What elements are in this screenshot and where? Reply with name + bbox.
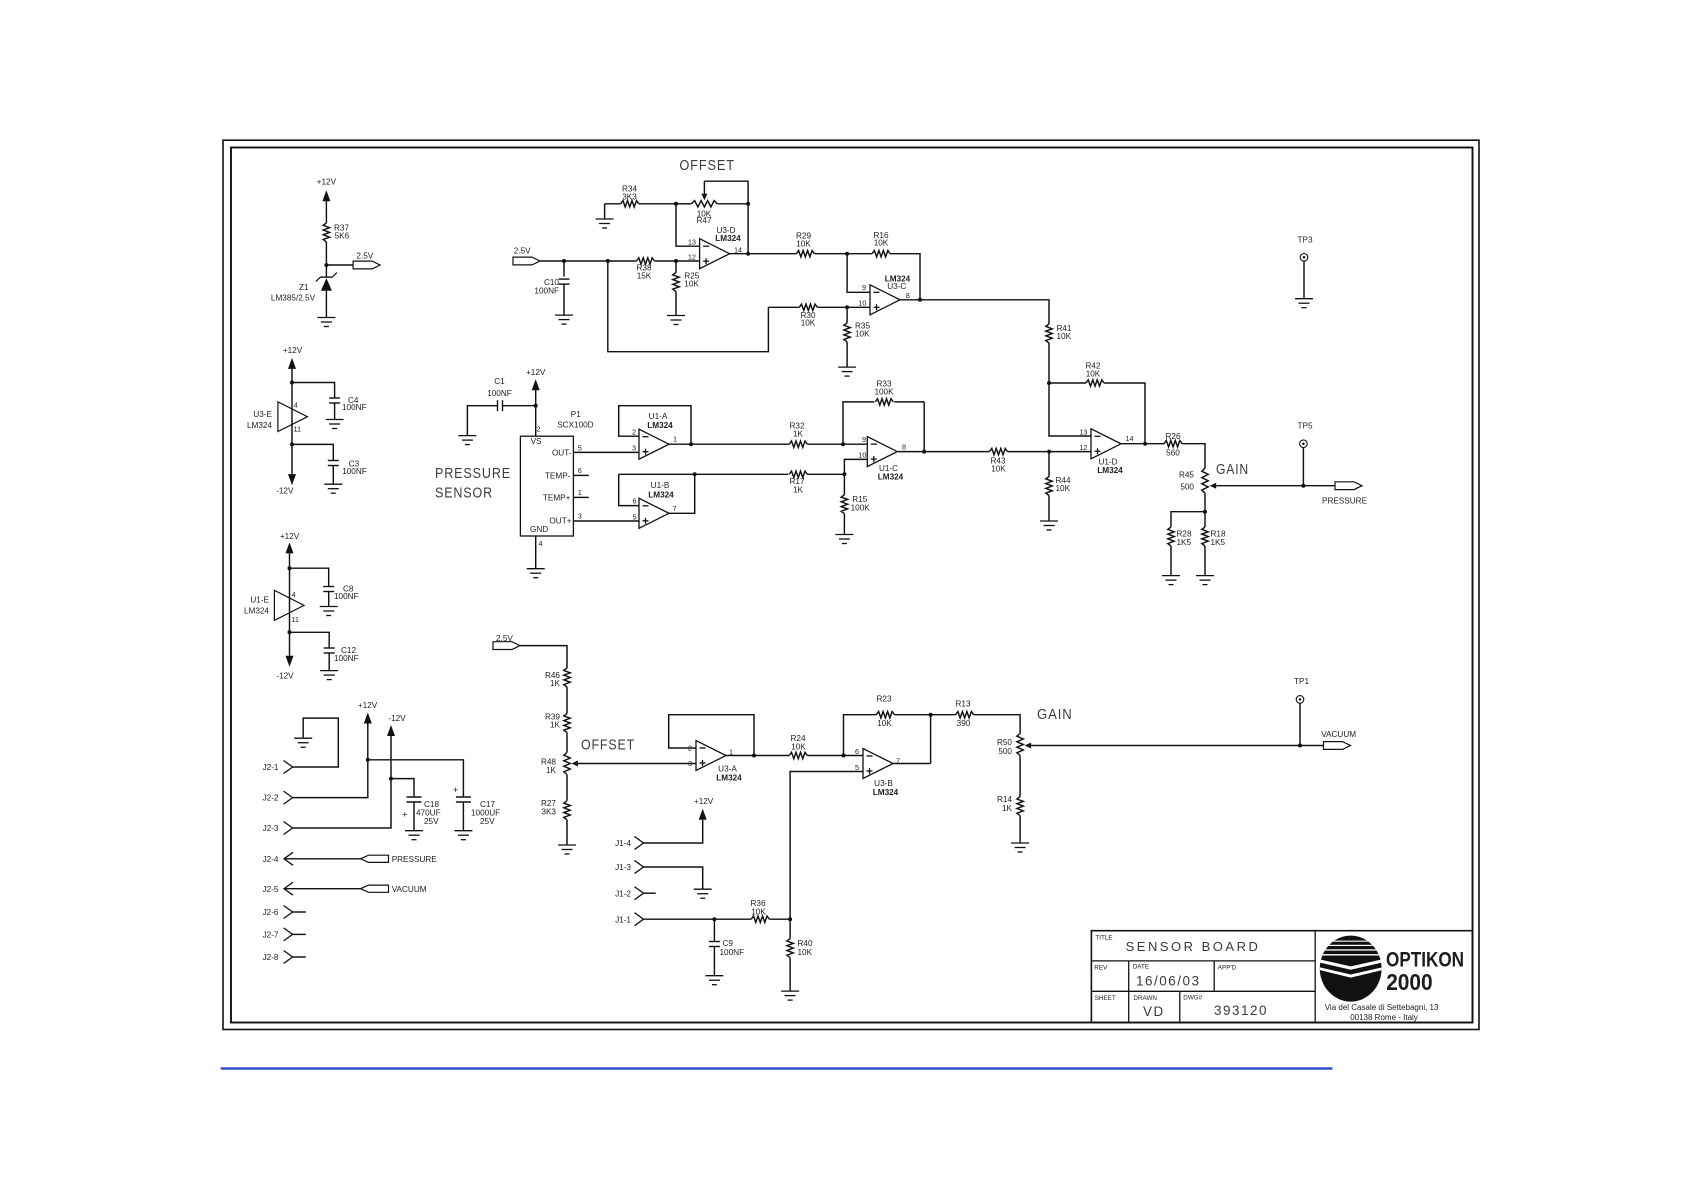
svg-text:J2-8: J2-8 [263, 953, 279, 962]
svg-text:REV: REV [1094, 965, 1108, 972]
svg-text:U3-C: U3-C [887, 282, 906, 291]
svg-text:LM324: LM324 [647, 421, 673, 430]
resistor R29 [796, 251, 814, 257]
svg-text:10: 10 [858, 451, 866, 460]
wire R45 bottom to divider [1204, 493, 1206, 512]
svg-text:U3-A: U3-A [718, 765, 737, 774]
svg-text:R26: R26 [1165, 432, 1180, 441]
wire R32 to node [807, 443, 843, 445]
svg-text:J2-2: J2-2 [263, 794, 279, 803]
svg-text:LM324: LM324 [716, 774, 742, 783]
capacitor C4 [292, 383, 335, 399]
svg-text:1: 1 [578, 488, 582, 497]
wire J2-6 stub [293, 911, 306, 913]
svg-text:11: 11 [294, 425, 302, 434]
wire R26 to R45 [1182, 444, 1205, 469]
svg-text:SCX100D: SCX100D [557, 420, 593, 429]
svg-text:100NF: 100NF [487, 389, 512, 398]
resistor R16 feedback [847, 253, 872, 255]
wire R29 to node [814, 253, 847, 255]
resistor R43 [990, 448, 1008, 454]
svg-text:TP3: TP3 [1298, 236, 1313, 245]
ground below C12 [320, 670, 338, 672]
svg-text:500: 500 [998, 747, 1012, 756]
svg-text:6: 6 [578, 466, 582, 475]
svg-text:J1-3: J1-3 [615, 863, 631, 872]
ground below R14 [1011, 842, 1029, 844]
border frame outer [223, 140, 1479, 1029]
resistor R18 [1204, 512, 1206, 527]
wire R50 to R14 [1019, 756, 1021, 797]
svg-text:LM324: LM324 [1097, 466, 1123, 475]
svg-text:25V: 25V [424, 817, 439, 826]
potentiometer R50 [1017, 734, 1023, 756]
node R23/R13/output [929, 713, 933, 717]
ground at J2-1 [294, 737, 312, 739]
wire node to U3-C pin10 [847, 306, 870, 308]
wire R16 to U3-C output [890, 254, 920, 300]
node U3-E pin11 [290, 442, 294, 446]
svg-text:+12V: +12V [280, 532, 300, 541]
svg-text:-12V: -12V [276, 486, 294, 495]
power -12V arrow (U1-E) [289, 632, 291, 655]
svg-text:OFFSET: OFFSET [679, 157, 735, 174]
node R29/R16/pin9 [845, 252, 849, 256]
svg-text:J2-4: J2-4 [263, 855, 279, 864]
svg-text:5: 5 [855, 763, 859, 772]
svg-text:R45: R45 [1179, 471, 1194, 480]
svg-text:393120: 393120 [1214, 1003, 1268, 1018]
capacitor C12 [290, 632, 330, 648]
svg-text:11: 11 [291, 615, 299, 624]
wire 2.5V loop to R30 [608, 261, 769, 352]
wire P1 TEMP+ stub [573, 496, 588, 498]
svg-text:6: 6 [855, 747, 859, 756]
wire R48 wiper to U3-A pin3 [578, 763, 696, 765]
wire R37 to node 2.5V [325, 242, 327, 265]
resistor R36 [751, 916, 769, 922]
svg-text:R50: R50 [997, 738, 1012, 747]
resistor R38 [637, 258, 655, 264]
ground below C17 [454, 830, 472, 832]
svg-text:VACUUM: VACUUM [1321, 730, 1356, 739]
wire P1 OUT- to U1-A pin3 [573, 451, 639, 453]
svg-text:TITLE: TITLE [1095, 935, 1112, 942]
svg-text:+12V: +12V [694, 797, 714, 806]
wire node to U3-D pin13 [676, 204, 700, 246]
svg-text:5: 5 [632, 513, 636, 522]
resistor R24 [789, 752, 807, 758]
svg-text:1K: 1K [1002, 804, 1013, 813]
svg-text:10K: 10K [796, 239, 811, 248]
ground below R27 [558, 844, 576, 846]
blue footer line [221, 1067, 1333, 1069]
power -12V arrow (U3-E) [291, 444, 293, 474]
resistor R37 [323, 223, 329, 242]
svg-text:DWG#: DWG# [1183, 995, 1202, 1002]
svg-text:100NF: 100NF [342, 403, 367, 412]
svg-text:390: 390 [957, 719, 971, 728]
wire J1-1 to R36 [644, 918, 752, 920]
svg-text:10K: 10K [798, 948, 813, 957]
wire through U1-E pins [289, 568, 291, 632]
svg-text:14: 14 [1126, 434, 1134, 443]
svg-text:PRESSURE: PRESSURE [1322, 496, 1368, 505]
svg-text:4: 4 [292, 590, 296, 599]
wire R17 to node [807, 473, 844, 475]
wire node to U1-C pin10 [844, 459, 867, 474]
wire P1 TEMP- stub [573, 474, 588, 476]
capacitor C17 [456, 796, 471, 798]
svg-text:8: 8 [906, 291, 910, 300]
svg-text:U1-E: U1-E [250, 596, 269, 605]
svg-text:10: 10 [858, 299, 866, 308]
wire node to 2.5V connector [326, 264, 353, 266]
svg-text:P1: P1 [571, 410, 581, 419]
op-amp U1-A [639, 429, 669, 459]
ground below R28 [1162, 575, 1180, 577]
svg-text:100NF: 100NF [334, 592, 359, 601]
wire node to C17 [368, 760, 464, 797]
ground below P1 [527, 568, 545, 570]
svg-text:10K: 10K [874, 239, 889, 248]
resistor R27 [564, 801, 570, 820]
svg-text:13: 13 [688, 238, 696, 247]
wire U3-A feedback loop [669, 715, 754, 756]
node TP1 on vacuum net [1298, 744, 1302, 748]
svg-text:1: 1 [673, 435, 677, 444]
capacitor C8 [290, 568, 329, 586]
ground below R25 [667, 315, 685, 317]
wire R17 row left [619, 473, 789, 475]
svg-text:Via del Casale di Settebagni,: Via del Casale di Settebagni, 13 [1325, 1003, 1439, 1012]
wire J1-4 to +12V [644, 820, 703, 843]
svg-text:VS: VS [531, 437, 542, 446]
wire through U3-E pins [291, 383, 293, 445]
svg-text:2.5V: 2.5V [356, 251, 373, 260]
wire 2.5V rail to U3-D pin12 [540, 260, 637, 262]
svg-text:VD: VD [1143, 1004, 1165, 1019]
svg-text:100NF: 100NF [334, 654, 359, 663]
resistor R15 [843, 474, 845, 494]
svg-text:+12V: +12V [358, 701, 378, 710]
resistor R41 [1046, 324, 1052, 343]
wire node to U1-D pin13 [1049, 383, 1091, 436]
resistor R42 [1049, 382, 1086, 384]
svg-text:10K: 10K [1086, 370, 1101, 379]
wire R41 to node [1048, 343, 1050, 383]
svg-text:10K: 10K [791, 743, 806, 752]
op-amp U1-E power pins [274, 590, 304, 620]
svg-text:500: 500 [1180, 483, 1194, 492]
node R36/R40/pin5 [788, 917, 792, 921]
node R38/R25 [674, 259, 678, 263]
wire P1 OUT+ to U1-B pin5 [573, 520, 639, 522]
title block outline [1091, 931, 1472, 1023]
svg-text:VACUUM: VACUUM [392, 885, 427, 894]
node C1/P1 VS [534, 404, 538, 408]
svg-text:10K: 10K [801, 319, 816, 328]
svg-text:10K: 10K [855, 330, 870, 339]
resistor R23 feedback [844, 715, 877, 756]
svg-text:LM324: LM324 [873, 788, 899, 797]
node R18/R28 divider [1203, 510, 1207, 514]
wire J2-7 stub [293, 933, 306, 935]
op-amp U3-E power pins [278, 402, 308, 432]
connector PRESSURE output [1335, 482, 1362, 490]
svg-text:+: + [453, 785, 459, 796]
capacitor C3 [292, 444, 333, 460]
wire R50 wiper to VACUUM [1031, 745, 1323, 747]
svg-text:OUT-: OUT- [552, 449, 572, 458]
svg-text:100NF: 100NF [534, 287, 559, 296]
capacitor C10 [563, 261, 565, 277]
ground below C10 [555, 314, 573, 316]
resistor R33 feedback [843, 402, 874, 444]
svg-text:5K6: 5K6 [335, 232, 350, 241]
wire J2-1 to ground [293, 718, 339, 767]
ground below J1-3 [694, 888, 712, 890]
border frame inner [231, 148, 1473, 1023]
svg-text:16/06/03: 16/06/03 [1136, 974, 1201, 989]
wire R23 node to U3-B output [930, 715, 932, 764]
wire P1 GND pin4 [535, 536, 537, 569]
ground below R15 [835, 534, 853, 536]
potentiometer R45 [1202, 468, 1208, 493]
node C17 tap [366, 758, 370, 762]
svg-text:LM324: LM324 [878, 473, 904, 482]
node TP5 on pressure net [1301, 484, 1305, 488]
svg-text:1K: 1K [793, 485, 804, 494]
logo OPTIKON globe [1319, 935, 1383, 1002]
svg-text:DRAWN: DRAWN [1133, 995, 1157, 1002]
node R24/R23/pin6 [842, 754, 846, 758]
ground below R18 [1196, 575, 1214, 577]
svg-text:J2-1: J2-1 [263, 763, 279, 772]
svg-text:C1: C1 [494, 377, 505, 386]
svg-text:TP5: TP5 [1298, 422, 1313, 431]
resistor R34 [605, 203, 621, 205]
wire R46 to R39 [566, 687, 568, 714]
resistor R46 [564, 668, 570, 687]
svg-text:2.5V: 2.5V [514, 247, 531, 256]
node C18 tap [389, 777, 393, 781]
resistor R40 [789, 919, 791, 938]
svg-text:100K: 100K [851, 504, 871, 513]
svg-text:6: 6 [632, 497, 636, 506]
connector VACUUM output [1324, 742, 1351, 750]
op-amp U3-A [696, 741, 726, 771]
svg-text:U1-B: U1-B [651, 481, 670, 490]
wire U3-B output [893, 763, 931, 765]
wire node to U3-C pin9 [847, 254, 870, 293]
wire U3-C output to R41 [900, 300, 1049, 324]
zener diode Z1 LM385/2.5V [325, 265, 327, 277]
node C9 tap [712, 917, 716, 921]
svg-text:DATE: DATE [1133, 964, 1149, 971]
svg-text:1K: 1K [546, 766, 557, 775]
svg-text:Z1: Z1 [299, 283, 309, 292]
wire node to U1-C pin9 [843, 443, 867, 445]
node R17/R15/pin10 [842, 472, 846, 476]
svg-text:-12V: -12V [388, 714, 406, 723]
svg-text:OPTIKON: OPTIKON [1386, 948, 1464, 971]
op-amp U1-D [1091, 429, 1121, 459]
ground below R44 [1040, 520, 1058, 522]
node C10 tap [562, 259, 566, 263]
svg-text:1K: 1K [550, 721, 561, 730]
svg-text:1K: 1K [793, 430, 804, 439]
svg-text:R14: R14 [997, 795, 1012, 804]
svg-text:TEMP+: TEMP+ [543, 494, 571, 503]
op-amp U3-D [700, 239, 730, 269]
svg-text:J1-4: J1-4 [615, 839, 631, 848]
node U3-A output [752, 754, 756, 758]
wire U3-B pin5 to R36 node [790, 772, 863, 920]
svg-text:GAIN: GAIN [1216, 461, 1249, 478]
svg-text:PRESSURE: PRESSURE [435, 466, 511, 482]
svg-text:7: 7 [673, 504, 677, 513]
svg-text:10K: 10K [751, 908, 766, 917]
svg-text:3K3: 3K3 [622, 193, 637, 202]
wire R43 to U1-D pin12 [1008, 451, 1092, 453]
svg-text:10K: 10K [877, 719, 892, 728]
svg-text:5: 5 [578, 443, 582, 452]
svg-text:4: 4 [294, 401, 298, 410]
svg-text:OUT+: OUT+ [549, 517, 571, 526]
svg-text:U3-E: U3-E [253, 410, 272, 419]
wire U1-A feedback loop [619, 406, 691, 445]
pressure sensor P1 SCX100D [520, 436, 573, 536]
resistor R17 [789, 471, 807, 477]
node U1-A output [689, 442, 693, 446]
ground below R35 [838, 366, 856, 368]
net label VACUUM [361, 885, 389, 892]
svg-text:560: 560 [1166, 448, 1180, 457]
svg-text:+12V: +12V [317, 177, 337, 186]
resistor R30 [768, 306, 799, 308]
ground below TP3 [1295, 298, 1313, 300]
svg-text:1K5: 1K5 [1177, 538, 1192, 547]
svg-text:J2-7: J2-7 [263, 931, 279, 940]
svg-text:C9: C9 [723, 939, 734, 948]
svg-text:LM324: LM324 [247, 421, 272, 430]
svg-text:OFFSET: OFFSET [581, 737, 635, 754]
svg-text:PRESSURE: PRESSURE [392, 855, 438, 864]
svg-text:J1-1: J1-1 [615, 916, 631, 925]
ground below C3 [324, 483, 342, 485]
wire R45 wiper to PRESSURE [1216, 485, 1335, 487]
svg-text:100NF: 100NF [342, 467, 367, 476]
ground below C9 [705, 975, 723, 977]
svg-text:100NF: 100NF [720, 948, 745, 957]
svg-text:2: 2 [632, 428, 636, 437]
svg-text:GND: GND [530, 525, 548, 534]
svg-text:J2-3: J2-3 [263, 824, 279, 833]
wire +12V to R37 [325, 201, 327, 223]
wire R39 to R48 [566, 733, 568, 753]
svg-text:TEMP-: TEMP- [545, 471, 571, 480]
svg-text:GAIN: GAIN [1037, 706, 1073, 723]
svg-text:9: 9 [862, 435, 866, 444]
wire R14 to ground [1019, 816, 1021, 843]
svg-text:R13: R13 [955, 700, 970, 709]
node U1-E pin4 [288, 566, 292, 570]
svg-text:2000: 2000 [1386, 969, 1433, 995]
op-amp U1-B [639, 498, 669, 528]
wire J2-2 to +12V [293, 724, 368, 798]
svg-text:1K5: 1K5 [1211, 538, 1226, 547]
svg-text:3: 3 [632, 444, 636, 453]
node R16 junction on output [918, 298, 922, 302]
net label PRESSURE [361, 855, 389, 862]
node R42 junction on output [1143, 442, 1147, 446]
wire R27 to ground [566, 820, 568, 845]
wire R36 to node [769, 918, 790, 920]
node R32/R33/pin9 [841, 442, 845, 446]
wire J1-2 stub [644, 892, 656, 894]
resistor R14 [1017, 797, 1023, 816]
svg-text:2: 2 [537, 425, 541, 434]
ground at R34 [604, 204, 606, 219]
wire R48 to R27 [566, 775, 568, 801]
wire R47 wiper feedback to U3-D output [704, 181, 748, 254]
resistor R26 [1164, 441, 1182, 447]
svg-text:15K: 15K [637, 272, 652, 281]
svg-text:TP1: TP1 [1294, 677, 1309, 686]
resistor R32 [789, 441, 807, 447]
ground left of C1 [458, 435, 476, 437]
resistor R39 [564, 714, 570, 733]
svg-text:LM324: LM324 [244, 607, 269, 616]
svg-text:SENSOR BOARD: SENSOR BOARD [1126, 939, 1261, 954]
node U3-D output [746, 252, 750, 256]
svg-text:13: 13 [1079, 428, 1087, 437]
svg-text:LM385/2.5V: LM385/2.5V [271, 294, 316, 303]
svg-text:+12V: +12V [283, 346, 303, 355]
svg-text:R47: R47 [696, 216, 711, 225]
wire R42 to U1-D output [1104, 383, 1145, 444]
wire node to C18 [391, 779, 414, 797]
svg-text:J2-6: J2-6 [263, 908, 279, 917]
wire U1-C output to R43 [897, 451, 989, 453]
ground below C4 [326, 419, 344, 421]
svg-text:100K: 100K [874, 388, 894, 397]
svg-text:3: 3 [578, 512, 582, 521]
ground below C8 [320, 606, 338, 608]
node U1-B output/R17 [693, 472, 697, 476]
wire U1-A output [669, 443, 789, 445]
svg-text:10K: 10K [684, 280, 699, 289]
svg-text:10K: 10K [991, 465, 1006, 474]
svg-text:12: 12 [1079, 443, 1087, 452]
capacitor C9 [713, 919, 715, 941]
wire R33 to U1-C output [923, 402, 925, 452]
svg-text:10K: 10K [1056, 484, 1071, 493]
wire R24 to node [807, 755, 863, 757]
svg-text:10K: 10K [1057, 332, 1072, 341]
svg-text:+12V: +12V [526, 368, 546, 377]
wire J2-8 stub [293, 956, 306, 958]
wire R34 to node [639, 203, 676, 205]
wire 2.5V to R46 [520, 646, 567, 668]
node R44 tap [1047, 450, 1051, 454]
svg-text:U1-A: U1-A [649, 412, 668, 421]
svg-text:9: 9 [862, 283, 866, 292]
svg-text:12: 12 [688, 253, 696, 262]
node 2.5V loop tap [606, 259, 610, 263]
resistor R13 [956, 712, 974, 718]
